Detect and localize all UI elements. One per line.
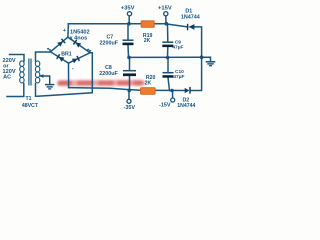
junction node -15V rail / C10 [170, 89, 174, 93]
resistor R20 [141, 88, 156, 95]
svg-text:-: - [72, 66, 74, 72]
watermark pink band [57, 80, 145, 86]
svg-text:47µF: 47µF [173, 74, 184, 80]
junction node 0V rail / zener return [200, 55, 204, 59]
terminal +35V [127, 12, 131, 16]
svg-text:+: + [63, 28, 66, 34]
ground (right, 0V rail) [206, 62, 216, 66]
bridge rectifier BR1 diode upper-right [73, 40, 81, 48]
transformer T1 primary winding [20, 61, 24, 83]
wire mid rail to right ground [202, 57, 211, 61]
svg-text:C9: C9 [175, 39, 181, 45]
svg-text:-15V: -15V [159, 103, 171, 109]
svg-text:+35V: +35V [121, 5, 135, 11]
wire D1 to right vertical [194, 27, 201, 57]
junction node -35V rail / C8 [127, 89, 131, 93]
svg-text:2200uF: 2200uF [99, 71, 118, 77]
wire center tap [41, 76, 50, 84]
bridge rectifier BR1 diode upper-left [57, 39, 65, 47]
wire C7 stem [127, 24, 129, 40]
capacitor C9 [162, 42, 173, 47]
wire secondary bottom lead AC return to bridge right vertex [36, 53, 93, 97]
bridge diamond sides [51, 37, 91, 63]
junction node +35V rail / C7 [127, 22, 131, 26]
ground (center tap) [45, 85, 54, 89]
svg-text:-35V: -35V [123, 105, 135, 111]
svg-text:x 4nos: x 4nos [70, 36, 88, 42]
junction node 0V rail / C7-C8 [127, 56, 131, 60]
svg-text:C10: C10 [175, 69, 184, 75]
terminal -15V [171, 98, 175, 102]
capacitor C7 [123, 40, 134, 45]
svg-text:AC: AC [3, 74, 11, 80]
svg-text:T1: T1 [25, 96, 31, 102]
capacitor C8 [123, 71, 136, 76]
svg-text:2K: 2K [145, 80, 152, 86]
center tap arrowhead [39, 74, 43, 78]
transformer T1 secondary winding [35, 61, 39, 83]
wire bridge minus output [68, 63, 70, 88]
svg-text:2200uF: 2200uF [100, 40, 119, 46]
svg-text:1N4744: 1N4744 [181, 15, 200, 21]
wire bridge plus output to top rail [67, 24, 70, 37]
wire secondary top lead to bridge left vertex [36, 52, 51, 61]
label tilde right [87, 49, 91, 51]
svg-text:D1: D1 [185, 8, 192, 14]
svg-text:BR1: BR1 [61, 51, 71, 57]
wire C10 stem [167, 58, 169, 72]
svg-text:48VCT: 48VCT [22, 103, 39, 109]
wire bottom rail [69, 88, 185, 91]
terminal +15V [164, 12, 168, 16]
bridge rectifier BR1 diode lower-right [72, 56, 80, 64]
junction node +15V rail / C9 [165, 22, 169, 26]
wire -15V stub [172, 91, 174, 99]
wire primary bottom lead [7, 84, 24, 97]
wire mid rail [129, 56, 201, 58]
zener diode D1 [188, 24, 195, 30]
svg-text:2K: 2K [144, 38, 151, 44]
wire -35V stub [128, 90, 130, 99]
junction node 0V rail / C9-C10 [166, 56, 170, 60]
wire right vertical lower half [191, 57, 202, 90]
svg-text:1N4744: 1N4744 [177, 103, 195, 109]
terminal -35V [127, 99, 131, 103]
wire C9 stem [167, 24, 169, 42]
wire +35V stub [128, 16, 130, 24]
wire primary top lead [10, 55, 25, 62]
wire C8 stem [129, 57, 131, 70]
svg-text:47µF: 47µF [172, 45, 183, 51]
zener diode D2 [185, 87, 190, 94]
label tilde left [47, 48, 51, 50]
svg-text:+15V: +15V [158, 5, 172, 11]
resistor R19 [141, 21, 154, 28]
bridge rectifier BR1 diode lower-left [57, 54, 65, 62]
transformer core lines [29, 59, 31, 86]
wire +15V stub [165, 16, 167, 24]
wire top rail [68, 24, 187, 27]
capacitor C10 [163, 73, 174, 78]
